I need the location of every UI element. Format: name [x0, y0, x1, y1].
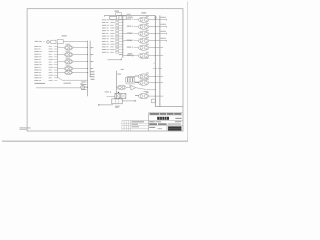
- contact K0: [47, 41, 50, 44]
- paper bottom edge shadow: [2, 140, 188, 142]
- box U1: [110, 16, 117, 19]
- relay coil KA3: [58, 58, 94, 64]
- bus B bottom junction: [119, 53, 134, 56]
- label cluster A header: [62, 35, 67, 36]
- wire D riser: [116, 71, 121, 98]
- paper right edge shadow: [187, 2, 189, 142]
- title block right divider: [148, 113, 150, 131]
- label right of U2: [128, 17, 133, 18]
- title text right of logo: [175, 118, 181, 119]
- wire C bottom rail: [155, 106, 183, 108]
- revision table text: [132, 121, 145, 127]
- solenoid valve row Y3: [127, 30, 167, 37]
- title block top line: [149, 112, 183, 114]
- output arrow: [122, 100, 136, 102]
- title row small text: [149, 121, 181, 122]
- terminal list labels: [34, 46, 57, 81]
- bus C stub row 2: [144, 89, 156, 92]
- meter M1: [80, 84, 88, 90]
- bus B stub 1: [123, 33, 132, 34]
- title block header text: [150, 113, 182, 115]
- bus A2 right: [89, 41, 91, 78]
- solenoid valve row Y2: [127, 23, 167, 30]
- cluster B header: [114, 11, 130, 15]
- relay coil KA1: [58, 44, 94, 50]
- connector J1: [125, 76, 139, 87]
- sheet dash: [158, 127, 162, 130]
- relay coil KA4: [58, 65, 94, 71]
- cluster C header: [141, 12, 146, 13]
- note text outside frame: [20, 127, 31, 129]
- company logo: [157, 117, 169, 120]
- transformer T1: [115, 93, 120, 98]
- transformer T2: [121, 93, 126, 98]
- bus B stub 2: [123, 40, 132, 41]
- bus A2 stub labels right: [91, 71, 95, 79]
- relay coil KA2: [58, 51, 94, 57]
- wire top rail: [104, 14, 155, 16]
- wire feed line: [36, 87, 80, 89]
- solenoid valve row Y9: [135, 92, 163, 99]
- wire D left: [98, 104, 112, 106]
- node text above feed: [64, 83, 72, 84]
- solenoid valve row Y4: [127, 37, 167, 44]
- relay coil KA5: [58, 71, 89, 75]
- bus C left: [154, 15, 156, 106]
- bus A1: [57, 44, 59, 79]
- node label D: [105, 91, 120, 96]
- title block rule 2: [149, 119, 183, 121]
- terminal row label: [35, 41, 45, 42]
- bus C stub row 1: [153, 63, 162, 69]
- bus C right: [159, 15, 161, 106]
- wire: [63, 41, 87, 43]
- box U0a: [51, 40, 56, 43]
- bus A2 left: [87, 41, 89, 97]
- title block rule 3: [149, 125, 183, 127]
- solenoid valve row Y7: [135, 73, 163, 80]
- relay contact D1: [116, 85, 129, 90]
- solenoid valve row Y5: [127, 44, 163, 51]
- node label: [35, 83, 46, 84]
- title drawing name text: [149, 123, 181, 124]
- wire B drop: [108, 58, 124, 70]
- terminal list B: [102, 19, 123, 53]
- box near bus: [152, 99, 156, 103]
- solenoid valve row Y6: [127, 52, 163, 59]
- box U0b: [57, 40, 63, 44]
- title block rule: [149, 114, 183, 116]
- amplifier A1: [131, 85, 147, 90]
- revision table: [122, 121, 149, 131]
- bus A2 stub labels left: [81, 82, 87, 90]
- box above rail: [116, 13, 122, 16]
- drawing border frame: [27, 9, 183, 131]
- title bottom divider: [166, 126, 168, 132]
- scale text: [149, 127, 155, 128]
- box U2: [119, 16, 126, 20]
- bus B: [122, 15, 124, 57]
- label under U3: [115, 106, 120, 108]
- solenoid valve row Y1: [127, 16, 167, 22]
- solenoid valve row Y8: [135, 79, 163, 85]
- drawing number dark cell: [168, 126, 182, 130]
- bus C top symbol: [155, 17, 157, 19]
- rail left tick: [103, 15, 105, 17]
- wire A bottom: [58, 77, 88, 80]
- box U3: [112, 99, 122, 104]
